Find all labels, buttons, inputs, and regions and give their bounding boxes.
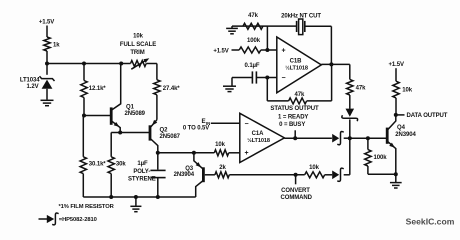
svg-text:12.1k*: 12.1k* xyxy=(89,86,107,92)
capacitor C 0.1uF xyxy=(232,63,277,84)
input E_IN label xyxy=(183,118,210,131)
wire xyxy=(305,25,332,27)
wire xyxy=(325,174,333,176)
svg-text:CONVERT: CONVERT xyxy=(281,188,310,194)
svg-text:POLY-: POLY- xyxy=(133,169,150,175)
resistor R 30k xyxy=(108,157,126,174)
diode D (vertical, HP5082-2810) xyxy=(342,109,358,139)
svg-text:=HP5082-2810: =HP5082-2810 xyxy=(59,217,97,223)
node junction xyxy=(265,76,269,80)
wire xyxy=(367,166,369,174)
node A junction xyxy=(45,62,49,66)
capacitor C 1uF polystyrene xyxy=(128,161,166,197)
node Q1 collector junction xyxy=(119,62,123,66)
wire xyxy=(83,64,85,81)
node 100k junction xyxy=(366,136,370,140)
trimpot 10k FULL SCALE TRIM xyxy=(120,34,157,70)
resistor R 1k xyxy=(44,37,60,51)
power +1.5V supply label (top left) xyxy=(39,20,54,26)
wire xyxy=(156,64,158,80)
wire C1B output xyxy=(321,63,350,65)
node B junction xyxy=(82,114,86,118)
wire xyxy=(367,138,369,149)
wire xyxy=(395,174,397,182)
svg-text:Q1: Q1 xyxy=(126,105,135,111)
svg-text:*1% FILM RESISTOR: *1% FILM RESISTOR xyxy=(59,204,115,210)
svg-text:C1B: C1B xyxy=(290,59,302,65)
resistor R 10k (pullup) xyxy=(393,81,413,98)
node rail junction xyxy=(109,195,113,199)
resistor R 100k xyxy=(239,38,261,53)
svg-text:2N3904: 2N3904 xyxy=(174,172,195,178)
wire xyxy=(46,26,48,38)
svg-text:½LT1018: ½LT1018 xyxy=(247,137,270,144)
wire xyxy=(395,98,397,115)
svg-text:1k: 1k xyxy=(53,43,60,49)
resistor R 2k xyxy=(215,165,229,178)
node W1 junction xyxy=(118,131,122,135)
svg-text:0 = BUSY: 0 = BUSY xyxy=(279,122,305,128)
svg-text:LT1034: LT1034 xyxy=(20,78,40,84)
wire xyxy=(157,153,159,170)
svg-text:STYRENE: STYRENE xyxy=(128,176,156,182)
svg-text:Q4: Q4 xyxy=(397,125,406,131)
resistor R 10k (C1A input) xyxy=(214,142,228,156)
power +1.5V label (right) xyxy=(389,62,404,68)
resistor R 47k (pullup) xyxy=(347,79,366,95)
svg-text:1µF: 1µF xyxy=(137,161,148,167)
wire crystal rail xyxy=(232,25,296,27)
svg-text:½LT1018: ½LT1018 xyxy=(285,64,308,71)
ground (0.1uF left) xyxy=(223,78,236,92)
resistor R 27.4k xyxy=(154,80,181,95)
node rail/output junction xyxy=(348,136,352,140)
op-amp U C1A 1/2 LT1018 xyxy=(240,113,285,162)
node emitter junction xyxy=(394,172,398,176)
wire xyxy=(110,174,112,197)
legend 1% film resistor xyxy=(59,204,115,210)
resistor R 100k (Q4 base) xyxy=(365,150,388,166)
wire status stub xyxy=(294,130,296,138)
svg-text:0 TO 0.5V: 0 TO 0.5V xyxy=(183,126,209,132)
svg-text:100k: 100k xyxy=(374,155,388,161)
svg-text:1.2V: 1.2V xyxy=(27,84,39,90)
wire xyxy=(344,137,350,139)
svg-text:0.1µF: 0.1µF xyxy=(245,63,260,69)
transistor Q3 2N3904 xyxy=(174,153,204,197)
svg-text:−: − xyxy=(282,75,286,82)
ground (below LT1034) xyxy=(41,100,54,105)
ground (below Q4) xyxy=(390,183,402,188)
svg-text:COMMAND: COMMAND xyxy=(281,195,313,201)
wire xyxy=(82,174,84,197)
wire xyxy=(349,64,351,79)
wire xyxy=(331,64,333,101)
wire xyxy=(368,173,396,175)
node Q3 collector junction xyxy=(192,151,196,155)
wire xyxy=(156,95,158,120)
svg-text:STATUS OUTPUT: STATUS OUTPUT xyxy=(270,106,319,112)
crystal Y 20kHz NT CUT xyxy=(281,13,321,34)
svg-text:10k: 10k xyxy=(309,165,319,171)
resistor R 47k (C1B feedback) xyxy=(267,92,331,104)
wire xyxy=(349,95,351,109)
svg-text:DATA OUTPUT: DATA OUTPUT xyxy=(407,113,448,119)
svg-text:Q2: Q2 xyxy=(160,128,169,134)
legend diode symbol = HP5082-2810 xyxy=(39,213,97,225)
wire diode rail xyxy=(349,138,351,175)
node rail junction xyxy=(134,195,138,199)
svg-text:TRIM: TRIM xyxy=(130,50,144,56)
svg-text:27.4k*: 27.4k* xyxy=(163,86,181,92)
svg-text:10k: 10k xyxy=(215,142,225,148)
svg-text:10k: 10k xyxy=(402,88,412,94)
wire E_IN to C1A xyxy=(211,122,240,124)
svg-text:+1.5V: +1.5V xyxy=(213,49,228,55)
wire to Q4 base xyxy=(350,137,386,139)
wire xyxy=(266,78,268,101)
watermark SeekIC.com xyxy=(406,217,455,227)
node DATA OUTPUT junction xyxy=(394,113,398,117)
wire top rail xyxy=(47,63,121,65)
wire data stub xyxy=(396,114,405,116)
node status junction xyxy=(293,136,297,140)
svg-text:2N5089: 2N5089 xyxy=(125,111,146,117)
wire convert row xyxy=(229,174,304,176)
svg-text:+: + xyxy=(282,48,286,55)
resistor R 12.1k xyxy=(81,81,107,98)
wire W1 emitter row xyxy=(111,132,149,134)
wire xyxy=(135,197,137,206)
node junction xyxy=(265,48,269,52)
svg-text:2N3904: 2N3904 xyxy=(395,132,416,138)
svg-text:1 = READY: 1 = READY xyxy=(278,114,308,120)
transistor Q4 2N3904 xyxy=(387,115,416,174)
wire xyxy=(46,64,48,75)
svg-text:−: − xyxy=(245,121,249,128)
svg-text:30k: 30k xyxy=(116,161,126,167)
diode D (C1A out, HP5082-2810) xyxy=(332,132,344,145)
wire Q1 base xyxy=(84,115,110,117)
wire N2 row xyxy=(158,152,215,154)
svg-text:47k: 47k xyxy=(295,92,305,98)
diode D (convert, HP5082-2810) xyxy=(332,168,344,181)
svg-text:+1.5V: +1.5V xyxy=(39,20,54,26)
wire xyxy=(261,49,277,51)
svg-text:47k: 47k xyxy=(248,13,258,19)
wire xyxy=(83,98,85,116)
svg-text:10k: 10k xyxy=(133,34,143,40)
power +1.5V label (C1B) xyxy=(213,49,228,55)
svg-text:2N5087: 2N5087 xyxy=(160,134,181,140)
op-amp U C1B 1/2 LT1018 xyxy=(277,37,322,93)
ground (main rail) xyxy=(130,206,141,211)
node convert junction xyxy=(294,173,298,177)
svg-text:Q3: Q3 xyxy=(185,166,194,172)
wire crystal return xyxy=(330,26,332,64)
svg-text:C1A: C1A xyxy=(252,131,264,137)
wire xyxy=(232,49,240,51)
svg-text:+1.5V: +1.5V xyxy=(389,62,404,68)
transistor Q2 2N5087 xyxy=(150,120,181,153)
resistor R 10k (convert) xyxy=(305,165,325,178)
svg-text:30.1k*: 30.1k* xyxy=(89,161,107,167)
wire C1A output xyxy=(284,137,332,139)
wire xyxy=(395,68,397,81)
svg-text:47k: 47k xyxy=(356,86,366,92)
wire xyxy=(46,51,48,64)
wire ground rail xyxy=(83,196,195,198)
svg-text:FULL SCALE: FULL SCALE xyxy=(120,42,156,48)
svg-text:2k: 2k xyxy=(219,165,226,171)
resistor R 47k (to ground) xyxy=(243,13,263,29)
svg-text:+: + xyxy=(245,150,249,157)
svg-text:E: E xyxy=(201,118,205,125)
node N2 junction xyxy=(156,151,160,155)
wire xyxy=(266,26,268,50)
resistor R 30.1k xyxy=(80,157,106,174)
wire convert stub xyxy=(295,175,297,185)
svg-text:SeekIC.com: SeekIC.com xyxy=(406,217,455,227)
transistor Q1 2N5089 xyxy=(111,64,145,133)
svg-text:100k: 100k xyxy=(247,38,261,44)
wire xyxy=(82,116,84,157)
ground (47k left) xyxy=(226,26,238,34)
node C1B output junction xyxy=(329,62,333,66)
junction node (12.1k top) xyxy=(82,62,86,66)
zener diode LT1034 1.2V xyxy=(20,76,55,99)
node rail junction xyxy=(156,195,160,199)
label STATUS OUTPUT xyxy=(270,106,319,128)
svg-text:20kHz NT CUT: 20kHz NT CUT xyxy=(281,13,321,19)
wire Q3 base xyxy=(205,174,215,176)
wire xyxy=(344,174,350,176)
label CONVERT COMMAND xyxy=(281,188,313,201)
wire xyxy=(229,152,240,154)
label DATA OUTPUT xyxy=(407,113,448,119)
wire xyxy=(110,133,112,157)
